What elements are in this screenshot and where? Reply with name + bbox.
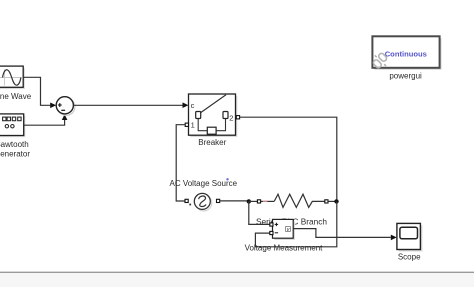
status bar divider [0, 272, 474, 287]
svg-text:1: 1 [191, 121, 195, 130]
svg-text:Sine Wave: Sine Wave [0, 92, 32, 101]
svg-text:powergui: powergui [389, 71, 422, 80]
svg-text:c: c [191, 101, 195, 110]
wire node B to Voltage Measurement minus [255, 201, 336, 246]
node B junction [334, 199, 338, 203]
block Sawtooth Generator [0, 114, 25, 137]
sum junction S1 [56, 97, 75, 116]
block Sine Wave [0, 66, 25, 89]
svg-text:Continuous: Continuous [385, 49, 427, 58]
block powergui [372, 36, 441, 70]
resistor Series RLC Branch [249, 194, 337, 207]
wire Sawtooth to Sum [24, 114, 68, 125]
svg-text:Generator: Generator [0, 149, 30, 158]
svg-text:Voltage Measurement: Voltage Measurement [245, 244, 324, 253]
svg-text:Scope: Scope [398, 253, 421, 262]
wire Voltage Measurement to Scope [293, 229, 397, 241]
node A junction [247, 199, 251, 203]
block Breaker [185, 94, 239, 137]
wire Sum to Breaker c [73, 102, 188, 108]
svg-text:Sawtooth: Sawtooth [0, 140, 29, 149]
wire Breaker port2 to node B [240, 117, 337, 201]
block Voltage Measurement [270, 219, 295, 240]
wire Breaker port1 to AC source [176, 125, 185, 201]
AC voltage source V1 [185, 193, 220, 211]
wire Sine Wave to Sum [23, 77, 56, 108]
wire node A to Voltage Measurement plus [249, 201, 270, 224]
annotation dot [226, 178, 228, 180]
svg-text:Breaker: Breaker [198, 138, 226, 147]
block Scope [397, 223, 423, 251]
svg-text:2: 2 [229, 113, 233, 122]
wire AC source to node A [220, 200, 249, 202]
label Sawtooth Generator [0, 140, 30, 158]
